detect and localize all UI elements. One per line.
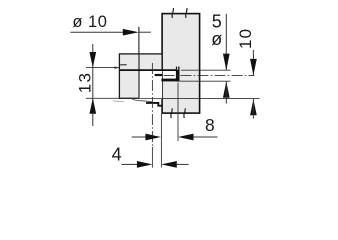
dim o5 bottom extension	[180, 80, 231, 82]
svg-text:10: 10	[236, 28, 255, 49]
step tick inside head	[120, 64, 127, 66]
shared extension below wall	[160, 114, 162, 168]
pocket left edge	[138, 54, 140, 98]
vertical centre line extension to dim 4	[151, 147, 153, 168]
small wedge at head left face	[115, 67, 120, 69]
dim 13 top arrow	[89, 52, 96, 68]
break mark top 1	[172, 8, 173, 18]
dim 8 line left tail	[132, 136, 146, 138]
dim 8 right arrow	[178, 134, 194, 141]
dim 10 bottom extension (shared bottom line)	[162, 97, 259, 99]
wall profile (broken section)	[162, 14, 200, 114]
dim o5 line bottom tail	[225, 81, 227, 103]
dim o10 line	[71, 31, 124, 33]
dim o5 top arrow	[223, 54, 230, 71]
dim 10 bottom arrow	[250, 99, 257, 115]
dim 13 bottom extension	[86, 97, 120, 99]
faint chamfer line under head left	[113, 101, 125, 102]
dim 8 left arrow	[145, 134, 161, 141]
dim o5 top extension	[181, 69, 231, 71]
vertical centre line	[151, 63, 153, 147]
svg-text:ø 10: ø 10	[72, 13, 107, 31]
break mark bottom 1	[171, 108, 172, 118]
dim 10 top arrow	[250, 59, 257, 76]
dim 10 line top	[252, 50, 254, 75]
foot step at wall face	[146, 103, 162, 106]
dim 10 line bottom tail	[252, 99, 254, 119]
dim 8 line right tail	[194, 136, 218, 138]
svg-text:8: 8	[205, 115, 215, 135]
dim 4 right arrow	[161, 161, 177, 168]
svg-text:4: 4	[112, 144, 122, 164]
svg-text:ø: ø	[211, 29, 222, 49]
dim 13 line	[92, 44, 94, 126]
dim 13 top extension	[86, 67, 119, 69]
svg-text:13: 13	[75, 72, 94, 93]
horizontal centre line	[164, 74, 255, 76]
pin end cap / barb	[176, 67, 180, 82]
dim 13 bottom arrow	[89, 98, 96, 114]
break mark top 2	[186, 8, 187, 18]
dim o10 extension line	[138, 27, 140, 54]
pin interior white	[163, 71, 176, 79]
dim 8 right extension	[177, 83, 179, 142]
pin bottom bar	[161, 79, 179, 82]
dim 4 line left tail	[121, 163, 137, 165]
dim o5 bottom arrow	[223, 81, 230, 98]
thin sloped line under head	[132, 99, 153, 102]
T-slot pocket (white)	[139, 70, 162, 98]
barb slot notch	[177, 67, 178, 70]
latch dash on axis	[155, 74, 163, 76]
dim o10 arrow	[123, 29, 139, 36]
clamp head body	[119, 54, 162, 98]
dim o5 line top	[225, 14, 227, 70]
pin top edge	[120, 69, 178, 71]
dim o10 overshoot	[139, 31, 151, 33]
dim 4 line right tail	[177, 163, 189, 165]
dim 4 left arrow	[137, 161, 153, 168]
break mark bottom 2	[184, 108, 185, 118]
